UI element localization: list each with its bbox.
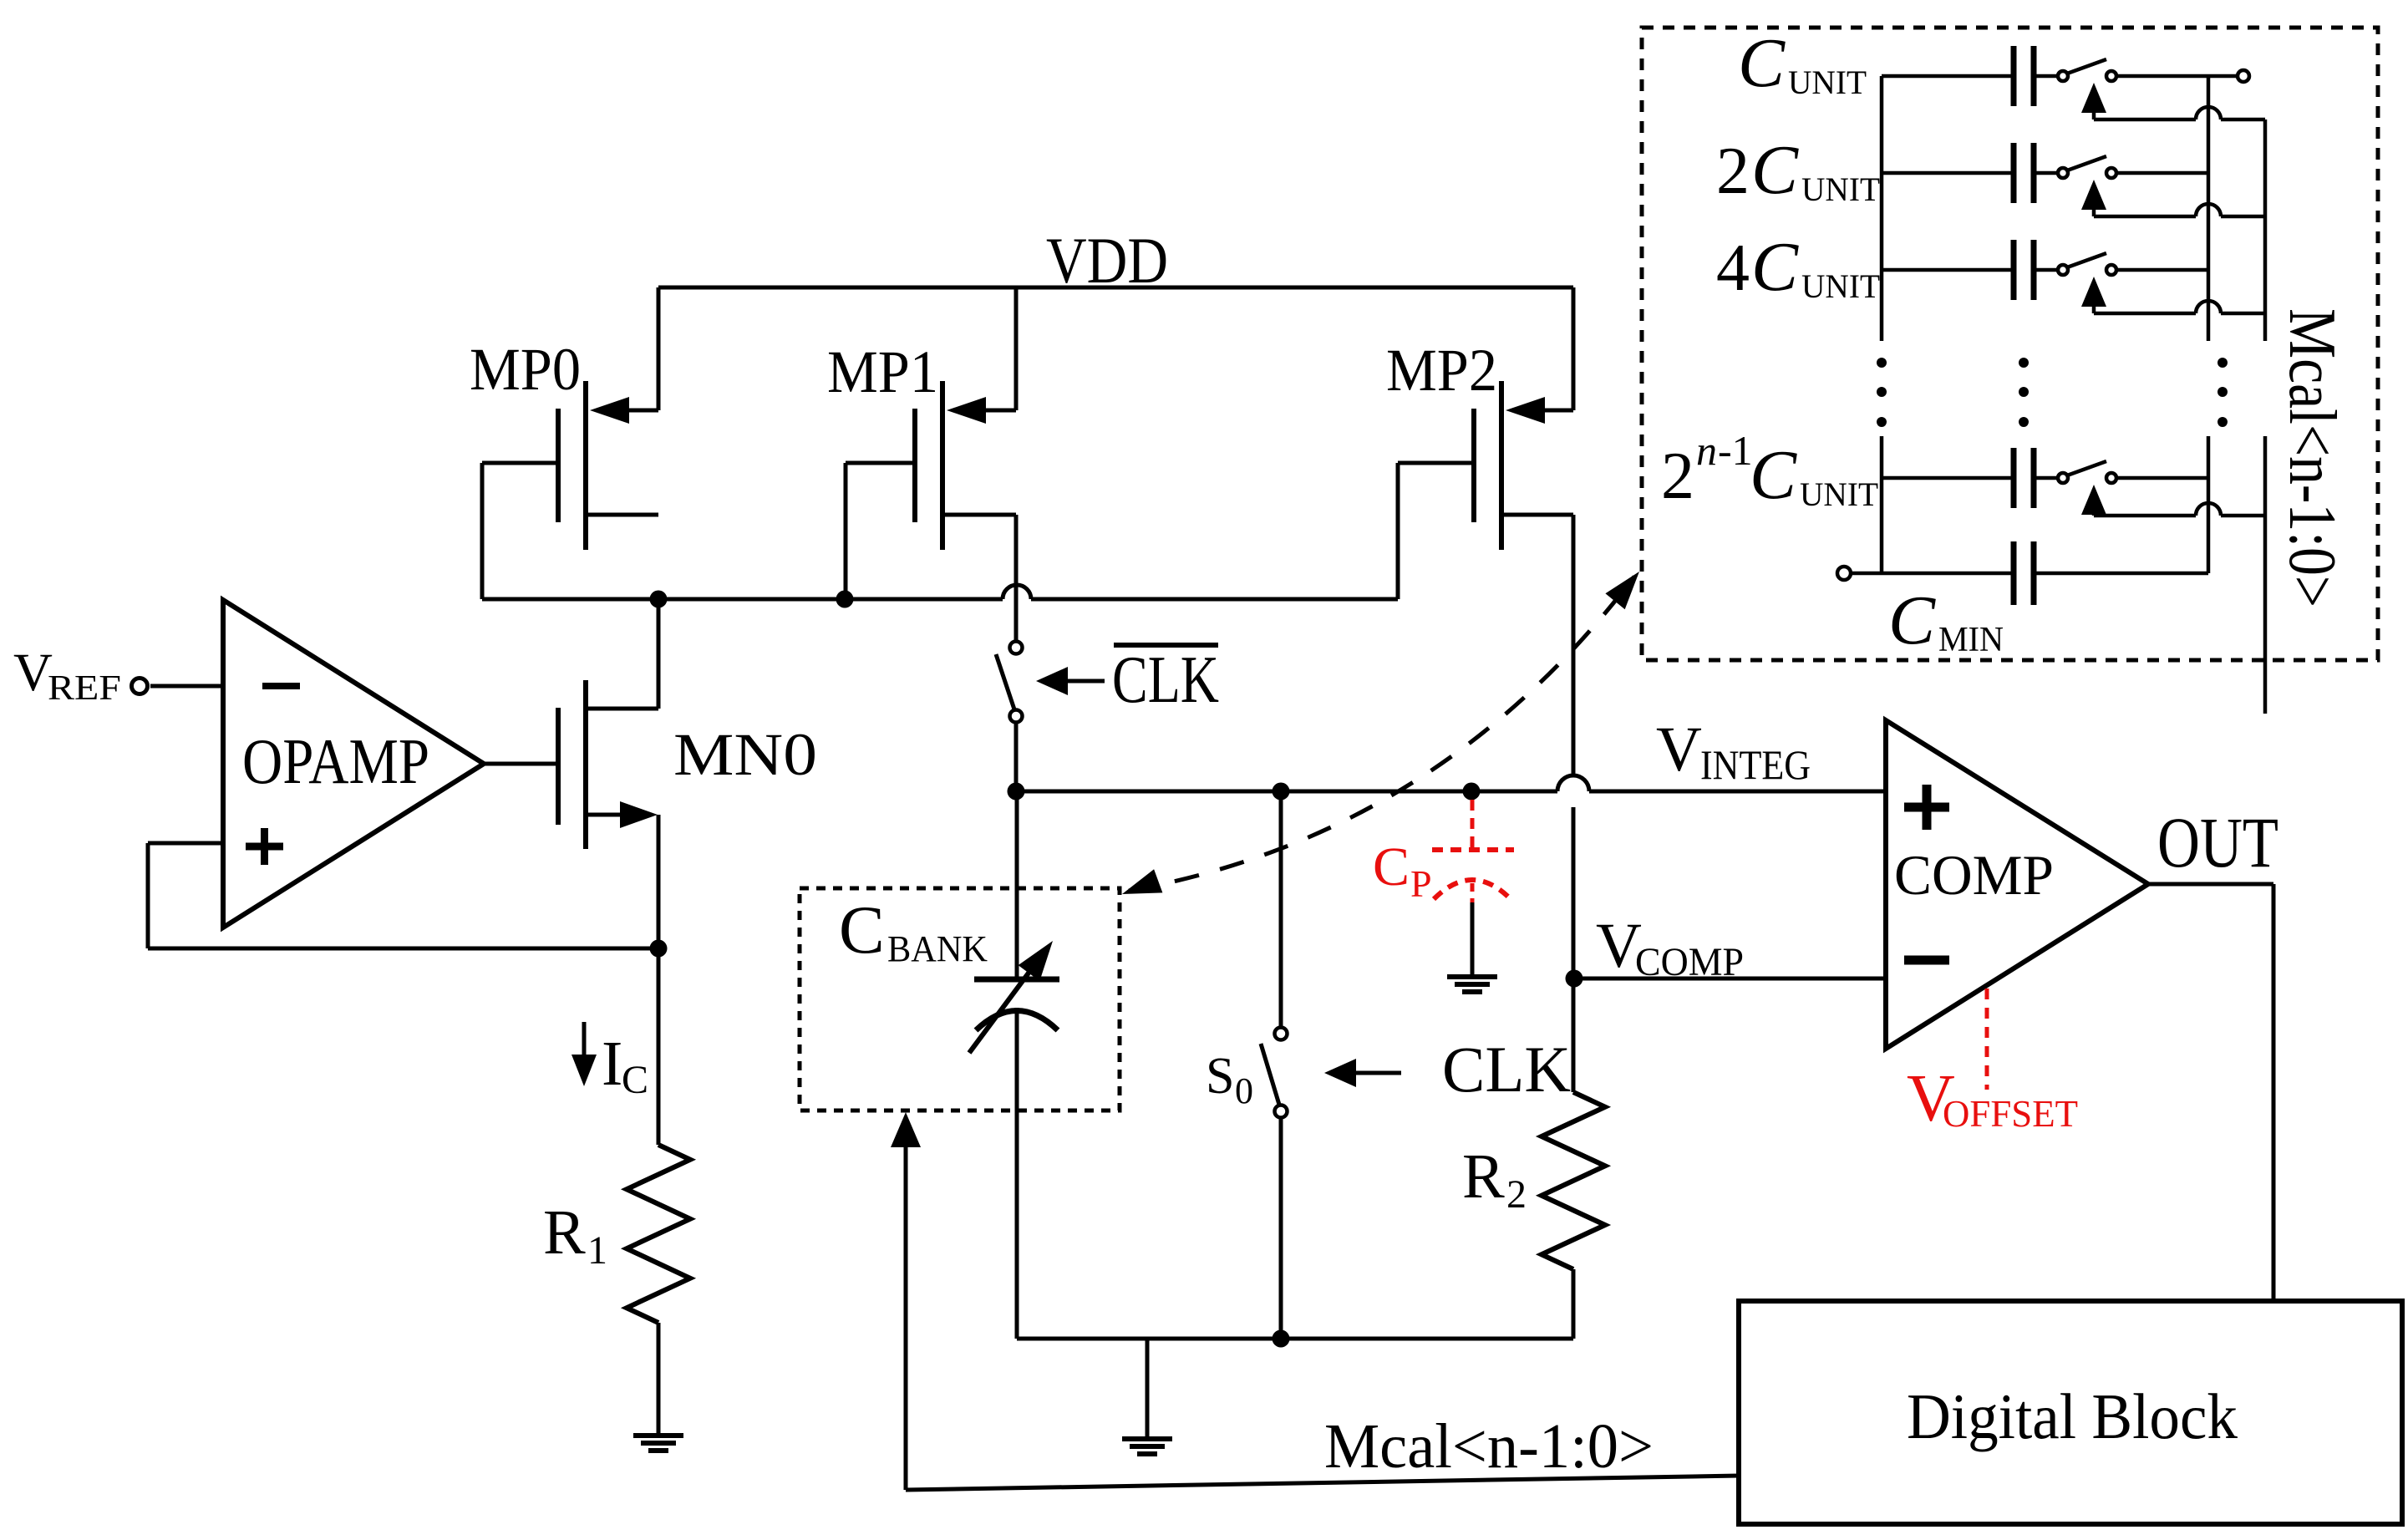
svg-text:Mcal<n-1:0>: Mcal<n-1:0> — [1324, 1411, 1654, 1482]
svg-text:CLK: CLK — [1442, 1033, 1571, 1105]
svg-text:COMP: COMP — [1894, 843, 2054, 907]
svg-text:1: 1 — [587, 1228, 607, 1273]
svg-text:COMP: COMP — [1635, 940, 1744, 984]
svg-text:n: n — [1696, 427, 1717, 474]
block Digital Block — [1739, 1301, 2402, 1524]
node VINTEG label — [1656, 714, 1811, 788]
transistor MN0 — [558, 599, 817, 948]
svg-text:C: C — [1751, 228, 1799, 306]
transistor MP0 — [470, 287, 658, 599]
op-amp U1 OPAMP — [223, 600, 484, 928]
svg-text:BANK: BANK — [887, 928, 988, 969]
wire MP2 drain column — [1572, 515, 1576, 1092]
wire gate mirror rail — [482, 585, 1398, 608]
label CLK-bar — [1036, 643, 1219, 717]
svg-text:4: 4 — [1716, 231, 1750, 305]
svg-text:MP0: MP0 — [470, 336, 581, 403]
label Mcal bus — [1324, 1411, 1654, 1482]
svg-text:C: C — [839, 892, 885, 968]
svg-text:S: S — [1206, 1048, 1234, 1105]
svg-text:I: I — [602, 1029, 622, 1099]
svg-text:OFFSET: OFFSET — [1943, 1093, 2078, 1135]
wire bank left bus — [1880, 76, 1884, 573]
label CLK — [1324, 1033, 1571, 1105]
wire bank Mcal bus B — [2263, 119, 2268, 714]
ground R1 — [633, 1323, 683, 1451]
wire opamp output — [484, 762, 558, 766]
ellipsis dots — [1877, 358, 2228, 427]
ground center — [1122, 1339, 1172, 1454]
svg-text:2: 2 — [1716, 135, 1750, 208]
wire bank bus A — [2207, 76, 2211, 573]
svg-text:UNIT: UNIT — [1801, 170, 1880, 208]
ground CP — [1447, 902, 1497, 992]
svg-text:R: R — [1462, 1141, 1505, 1212]
switch S0 — [1261, 791, 1288, 1339]
svg-text:2: 2 — [1506, 1172, 1527, 1217]
svg-text:OPAMP: OPAMP — [242, 725, 429, 797]
svg-text:C: C — [1750, 436, 1797, 514]
svg-text:C: C — [1373, 836, 1410, 897]
svg-text:2: 2 — [1661, 440, 1694, 513]
switch CLKB — [996, 515, 1023, 791]
svg-text:Mcal<n-1:0>: Mcal<n-1:0> — [2275, 308, 2349, 607]
capacitor CP (red, dashed) — [1432, 800, 1514, 902]
svg-text:MIN: MIN — [1938, 621, 2004, 659]
svg-text:MP2: MP2 — [1386, 337, 1497, 404]
svg-text:0: 0 — [1235, 1070, 1253, 1111]
svg-text:C: C — [1738, 24, 1786, 102]
box capacitor bank (dotted) — [1642, 28, 2378, 660]
wire ground rail — [1017, 1330, 1573, 1348]
svg-text:V: V — [13, 643, 53, 703]
svg-text:MP1: MP1 — [827, 338, 938, 405]
svg-text:C: C — [1751, 131, 1799, 209]
voltage VOFFSET (red) — [1907, 989, 2078, 1136]
svg-text:UNIT: UNIT — [1800, 475, 1878, 513]
svg-text:MN0: MN0 — [673, 721, 817, 788]
label CP — [1373, 836, 1432, 905]
svg-text:VDD: VDD — [1046, 224, 1168, 297]
node VCOMP — [1566, 911, 1887, 988]
label S0 — [1206, 1048, 1253, 1111]
capacitor 2CUNIT row2 — [1716, 131, 2265, 216]
wire Mcal bus — [891, 1112, 1739, 1490]
svg-text:UNIT: UNIT — [1788, 64, 1867, 101]
pointer dashed arc — [1122, 572, 1639, 894]
node VREF input terminal — [13, 643, 223, 708]
current arrow IC — [572, 1022, 648, 1102]
svg-text:REF: REF — [48, 669, 121, 708]
svg-text:CLK: CLK — [1112, 643, 1219, 717]
label C_BANK — [839, 892, 988, 969]
svg-text:Digital Block: Digital Block — [1907, 1380, 2238, 1452]
label OUT — [2157, 802, 2278, 882]
svg-text:OUT: OUT — [2157, 802, 2278, 882]
transistor MP2 — [1386, 287, 1573, 599]
comparator U2 COMP — [1886, 720, 2148, 1049]
capacitor 4CUNIT row3 — [1716, 228, 2265, 313]
wire VINTEG rail — [1008, 775, 1887, 800]
transistor MP1 — [827, 287, 1016, 599]
box C_BANK (dotted) — [800, 888, 1120, 1111]
label Mcal rotated — [2275, 308, 2349, 607]
svg-text:V: V — [1656, 714, 1702, 785]
resistor R1 — [543, 948, 690, 1323]
wire VDD rail — [658, 286, 1573, 290]
wire OUT — [2148, 884, 2273, 1301]
capacitor CBANK variable — [969, 791, 1059, 1339]
svg-text:C: C — [622, 1058, 648, 1102]
svg-text:P: P — [1410, 862, 1432, 905]
resistor R2 — [1462, 1092, 1605, 1339]
svg-text:R: R — [543, 1197, 586, 1268]
power VDD label — [1046, 224, 1168, 297]
svg-text:INTEG: INTEG — [1700, 741, 1811, 788]
capacitor 2n-1CUNIT row4 — [1661, 427, 2265, 516]
svg-text:C: C — [1888, 582, 1936, 659]
svg-text:-1: -1 — [1718, 427, 1753, 474]
wire feedback loop — [148, 843, 668, 958]
svg-text:UNIT: UNIT — [1801, 267, 1880, 305]
capacitor CUNIT row1 — [1738, 24, 2265, 119]
capacitor CMIN row — [1837, 541, 2208, 659]
